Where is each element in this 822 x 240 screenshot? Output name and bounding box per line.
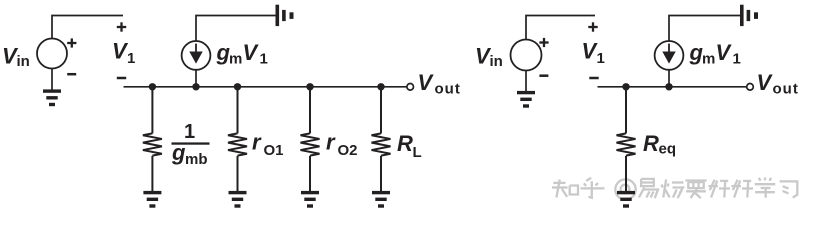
svg-text:R: R [643, 131, 659, 156]
resistor RL [372, 87, 391, 191]
voltage source Vin (left) [37, 39, 67, 69]
node at 1/gmb (left) [149, 83, 156, 90]
svg-text:eq: eq [659, 141, 677, 158]
label V1 (left) [112, 39, 135, 68]
svg-text:out: out [773, 81, 799, 98]
label Req [643, 131, 676, 158]
label minus below V1 (left) [117, 77, 126, 80]
resistor rO1 [228, 87, 247, 191]
minus sign of Vin source (left) [67, 73, 76, 76]
label rO1 [252, 130, 284, 160]
ground under RL [372, 191, 390, 208]
svg-text:1: 1 [127, 50, 135, 67]
watermark char xi2 [780, 181, 798, 197]
label Vin (right) [475, 44, 503, 71]
svg-text:V: V [757, 70, 774, 95]
svg-text:1: 1 [260, 51, 268, 68]
watermark at-sign [615, 179, 635, 199]
watermark char yao [685, 181, 706, 199]
output terminal open circle (left) [407, 84, 414, 91]
label rO2 [326, 130, 358, 160]
wire Vin bottom to ground (left) [51, 69, 53, 91]
node at rO1 (left) [234, 83, 241, 90]
svg-text:1: 1 [733, 51, 741, 68]
svg-text:r: r [326, 130, 336, 155]
svg-text:in: in [490, 53, 503, 70]
ground rotated at top (right) [740, 5, 758, 26]
node at Req (right) [622, 83, 629, 90]
node at current source (right) [665, 83, 672, 90]
watermark char hu [581, 178, 605, 198]
wire Vin top to V1 plus terminal (right) [526, 16, 595, 40]
svg-text:V: V [716, 40, 733, 65]
svg-text:m: m [702, 51, 715, 68]
watermark char xue [755, 178, 776, 198]
label gmV1 (left) [216, 40, 268, 68]
label RL [397, 131, 422, 161]
label 1/gmb fraction [171, 121, 210, 168]
label plus above V1 (left) [117, 22, 126, 31]
main bottom wire (right) [598, 86, 747, 88]
svg-text:1: 1 [597, 50, 605, 67]
svg-text:r: r [252, 130, 262, 155]
wire current source top to ground (left) [196, 16, 276, 42]
svg-text:R: R [397, 131, 413, 156]
svg-text:mb: mb [185, 151, 208, 168]
svg-text:g: g [171, 140, 186, 165]
minus sign of Vin source (right) [539, 74, 548, 77]
output terminal open circle (right) [747, 84, 754, 91]
ground under rO1 [229, 191, 247, 208]
svg-text:in: in [17, 53, 30, 70]
current source gmV1 (right) [655, 41, 684, 70]
label plus above V1 (right) [588, 22, 597, 31]
ground under rO2 [301, 191, 319, 208]
current source gmV1 (left) [182, 41, 211, 70]
plus sign of Vin source (right) [539, 38, 548, 47]
watermark char zhi [552, 180, 578, 198]
ground under Req [617, 191, 635, 208]
label V1 (right) [582, 39, 605, 68]
label Vout (right) [757, 70, 799, 98]
wire current source bottom to main wire (left) [195, 70, 197, 87]
resistor Req [617, 87, 636, 191]
voltage source Vin (right) [511, 40, 542, 71]
watermark char yi [639, 179, 658, 198]
svg-text:L: L [413, 144, 422, 161]
label Vout (left) [418, 70, 461, 98]
wire Vin bottom to ground (right) [525, 71, 527, 92]
ground under Vin (left) [43, 89, 61, 106]
watermark zhihu text [552, 178, 797, 200]
wire current source top to ground (right) [669, 16, 741, 42]
label minus below V1 (right) [589, 77, 598, 80]
svg-text:V: V [243, 40, 260, 65]
svg-text:1: 1 [184, 121, 195, 143]
ground rotated at top (left) [276, 5, 294, 26]
svg-text:out: out [435, 81, 461, 98]
ground under 1/gmb [143, 191, 161, 208]
watermark char hao2 [731, 180, 753, 198]
node at current source (left) [192, 83, 199, 90]
watermark char yang [662, 180, 684, 199]
label gmV1 (right) [689, 40, 741, 68]
svg-text:O2: O2 [338, 142, 358, 159]
plus sign of Vin source (left) [67, 38, 76, 47]
label Vin (left) [2, 44, 30, 71]
node at rO2 (left) [306, 83, 313, 90]
wire Vin top to V1 plus terminal (left) [52, 16, 123, 39]
node at RL (left) [377, 83, 384, 90]
svg-text:O1: O1 [264, 142, 284, 159]
wire current source bottom to main wire (right) [668, 70, 670, 87]
ground under Vin (right) [517, 91, 535, 108]
main bottom wire (left) [124, 86, 408, 88]
svg-text:m: m [229, 51, 242, 68]
resistor rO2 [301, 87, 320, 191]
resistor 1/gmb [143, 87, 162, 191]
watermark char hao1 [708, 180, 730, 198]
svg-text:V: V [418, 70, 435, 95]
